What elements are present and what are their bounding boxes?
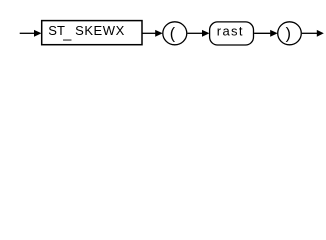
arrowhead into box <box>34 30 42 37</box>
wire ( to rast <box>187 32 202 34</box>
svg-text:SKEWX: SKEWX <box>75 23 125 38</box>
arrowhead into ) <box>270 30 278 37</box>
railroad syntax diagram: ST_SKEWX ( rast ) <box>0 0 326 58</box>
svg-text:rast: rast <box>217 23 243 38</box>
box ST_SKEWX <box>42 21 142 45</box>
wire box to ( <box>143 32 156 34</box>
wire start <box>20 32 35 34</box>
arrowhead into rast <box>202 30 210 37</box>
circle ) <box>278 22 302 45</box>
oval rast <box>210 22 254 45</box>
wire ) to end <box>302 32 317 34</box>
svg-text:_: _ <box>62 25 72 41</box>
circle ( <box>163 22 187 45</box>
svg-text:(: ( <box>170 26 176 43</box>
svg-text:): ) <box>286 26 291 43</box>
arrowhead end <box>317 30 324 37</box>
arrowhead into ( <box>155 30 163 37</box>
wire rast to ) <box>254 32 270 34</box>
